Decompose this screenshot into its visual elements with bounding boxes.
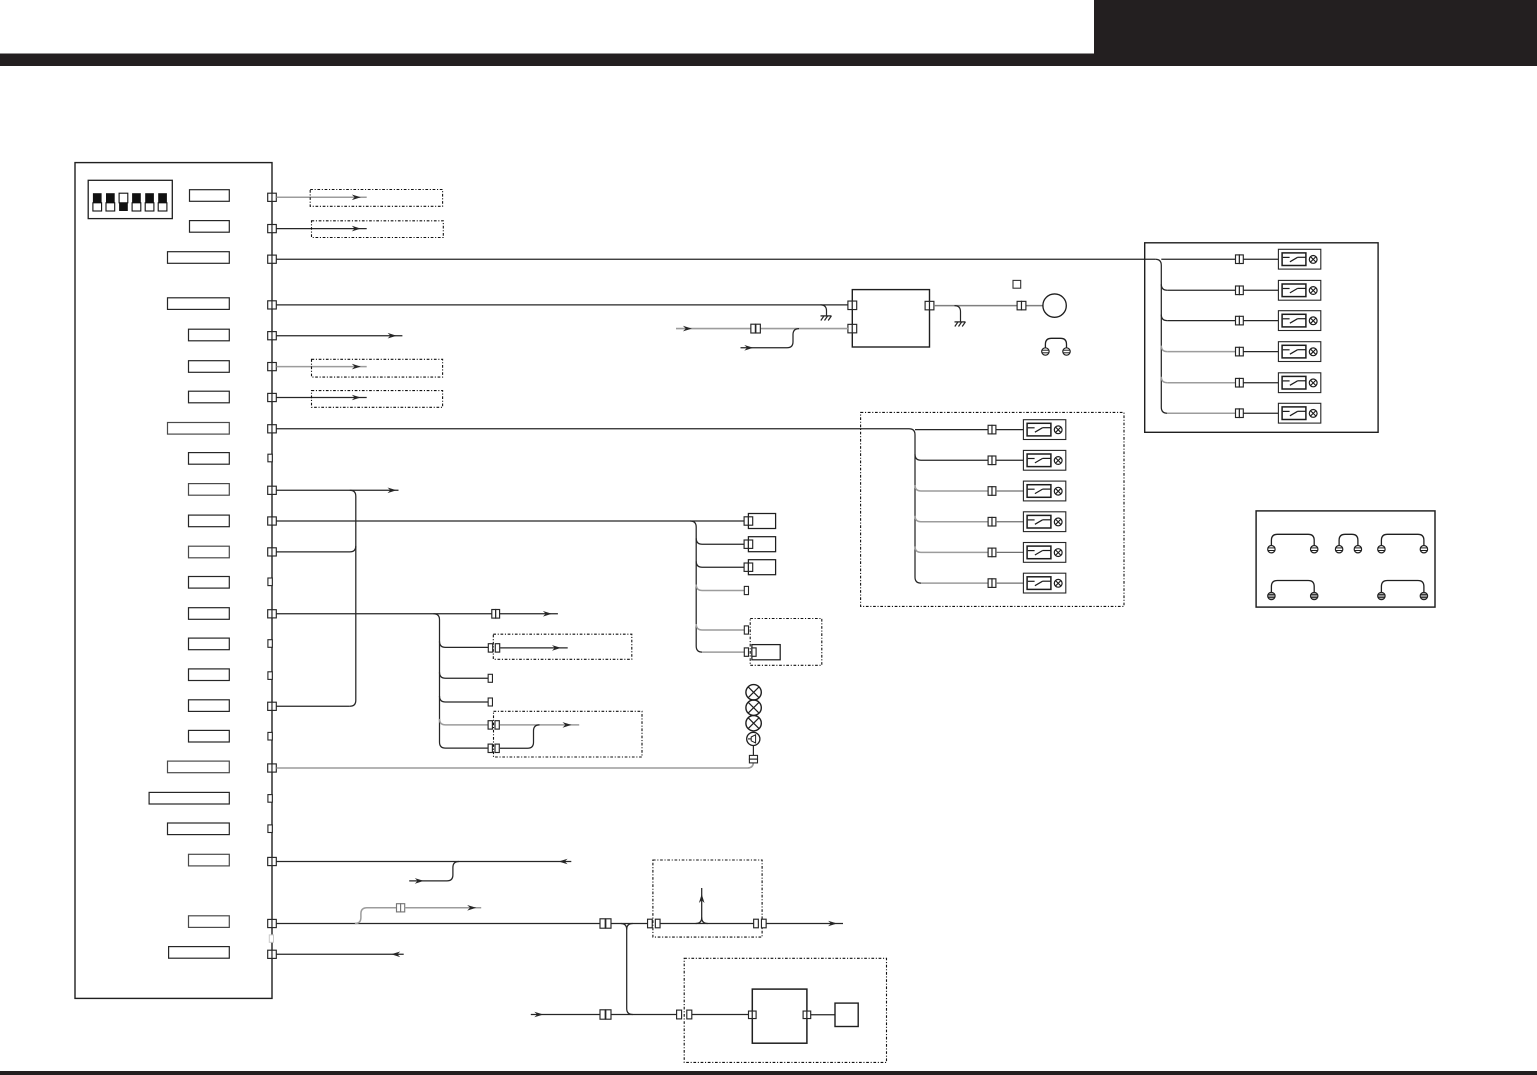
wire pin 14 out [500,611,558,617]
illumination bus [1155,259,1167,413]
pin 22 connector [268,857,277,865]
switch box left connector [648,919,661,928]
pin 19 connector [268,764,277,772]
wire branch e loop [446,725,540,748]
pin 19 label box [168,761,230,773]
control unit U1 box [75,163,272,999]
pin 18 label box [189,730,230,742]
branch bus of pin 14 [434,614,446,748]
pin 14 label box [189,608,230,620]
pin 16 stub [268,672,272,680]
pin 5 connector [268,332,277,340]
wire relay to motor [934,305,1043,307]
motor M1 [1043,294,1066,317]
fuse branch wire 4 [696,585,744,591]
illumination lamp unit 3 [1278,311,1320,331]
jumper link J0 [1042,338,1071,355]
fuse branch wire 6 [702,651,744,653]
pin 4 label box [168,298,230,310]
branch wire a [440,641,489,647]
interior lamp unit 4 [1023,512,1065,532]
fuse F3 connector [744,563,753,571]
stub terminal below fuses [744,586,748,594]
socket connector [744,648,756,656]
page header rule bar [0,54,1537,67]
module box left connector [677,1010,692,1019]
pin 15 label box [189,638,230,650]
jumper link J1 [1268,534,1318,553]
jumper link J5 [1378,581,1428,600]
pin 17 connector [268,702,277,710]
inline connector C2 [600,1010,611,1019]
pin 7 connector [268,393,277,401]
terminal junction box [1256,511,1435,607]
fuse F1 connector [744,517,753,525]
illumination lamp unit 5 [1278,373,1320,393]
DIP switch S1 [88,180,172,218]
interior lamp wire 3 [915,485,1023,495]
dashed box: control module [684,958,886,1062]
pin 12 label box [189,546,230,558]
ground G1 [821,305,832,321]
dashed box: interior lamp cluster [861,412,1124,606]
wire pin 7 [276,395,366,401]
branch e connector [488,744,499,752]
motor feed connector [1017,301,1026,310]
bus wire pins 10-12-17 [276,490,355,706]
branch wire b [440,672,489,678]
illumination lamp unit 4 [1278,342,1320,362]
fuse bus vertical [690,521,702,652]
fuse F2 connector [744,540,753,548]
dashed box: accessory socket [750,619,822,666]
fuse branch wire 5 [696,624,744,630]
ECU left connector [749,1011,757,1019]
spare terminal stub [269,935,273,942]
relay pin 1 connector [848,301,857,310]
pin 10 connector [268,486,277,494]
pin 6 label box [189,361,230,373]
interior lamp wire 2 [915,454,1023,464]
wire pin 17 [276,705,349,707]
relay box [852,290,929,347]
wire branch to relay pin 2 [741,329,800,351]
branch wire pin 23 up [355,908,396,924]
pin 8 connector [268,425,277,433]
jumper link J3 [1378,534,1428,553]
inline connector C3 [751,324,761,333]
pin 8 label box [168,423,230,435]
wire pin 23 out [766,921,843,927]
pin 20 label box [149,792,229,804]
branch 23 connector [397,904,405,912]
wire pin 24 [276,952,403,958]
dashed box: output 3 [312,359,443,377]
fuse F1 body [748,514,775,529]
pin 20 stub [268,795,272,803]
pin 7 label box [189,391,230,403]
illumination lamp wire 6 [1167,409,1278,418]
horn H1 [747,732,760,745]
pin 2 label box [190,221,230,233]
illumination lamp wire 1 [1161,255,1278,264]
jumper link J4 [1268,581,1318,600]
pin 11 label box [189,515,230,527]
pin 9 stub [268,454,272,462]
interior lamp unit 5 [1023,543,1065,563]
illumination lamp unit 1 [1278,249,1320,269]
wire pin 10 [276,488,398,494]
wire pin 6 [276,364,366,370]
switch box right connector [754,919,767,928]
ground G2 [955,306,966,327]
pin 4 connector [268,301,277,309]
relay pin 2 connector [848,324,857,333]
wire pin 19 to lamps [276,762,753,768]
fuse F2 body [748,537,775,552]
wire to ECU [692,1014,749,1016]
illumination lamp wire 2 [1161,284,1278,294]
pin 6 connector [268,363,277,371]
illumination lamp wire 4 [1161,346,1278,356]
bottom feed wire [531,1012,677,1018]
wire lamp stack [752,746,754,756]
interior lamp bus [909,429,921,583]
arrow up inside switch box [696,888,708,924]
pin 13 label box [189,577,230,589]
dashed box: switch unit [653,860,762,937]
wire pin 8 to interior lamp cluster [276,428,909,430]
illumination lamp wire 5 [1161,377,1278,387]
pin 12 connector [268,548,277,556]
dashed box: output 4 [312,391,443,408]
branch wire pin 22 [409,862,459,884]
dashed box: option connector 2 [494,711,643,757]
node square [1013,280,1021,288]
branch d connector [488,721,499,729]
dashed box: output 2 [312,221,444,238]
wire pin 23 [276,923,647,925]
wire pin 5 [276,333,402,339]
pin 10 label box [189,484,230,496]
pin 23 connector [268,919,277,927]
relay output connector [925,301,934,310]
sensor box [835,1003,858,1026]
wire feed to relay pin 2 [676,326,848,332]
interior lamp wire 6 [921,579,1023,588]
pin 14 connector [268,610,277,618]
dashed box: output 1 [310,190,442,207]
pin 13 stub [268,578,272,586]
wire pin 11 to fuse F1 [276,520,744,522]
pin 3 connector [268,255,277,263]
illumination cluster box [1145,243,1378,432]
pin 15 stub [268,640,272,648]
interior lamp wire 5 [915,546,1023,556]
pin 1 label box [190,190,230,202]
lamp L3 [746,716,761,731]
wire branch a out [500,645,568,651]
wire pin 14 [276,613,491,615]
interior lamp unit 6 [1023,573,1065,593]
illumination lamp unit 2 [1278,280,1320,300]
pin 18 stub [268,732,272,740]
interior lamp wire 4 [915,516,1023,526]
illumination lamp unit 6 [1278,403,1320,423]
lamp stack connector [749,755,757,763]
fuse F3 body [748,560,775,575]
wire branch 23 out [405,905,482,911]
pin 1 connector [268,193,277,201]
pin 5 label box [189,329,230,341]
branch c stub [488,698,492,706]
wire pin 4 to relay [276,304,848,306]
pin 9 label box [189,453,230,465]
wire inside switch box [660,923,753,925]
illumination lamp wire 3 [1161,315,1278,325]
pin 2 connector [268,225,277,233]
pin 22 label box [189,854,230,866]
pin 11 connector [268,517,277,525]
pin 21 stub [268,825,272,833]
interior lamp wire 1 [915,425,1023,434]
pin 17 label box [189,700,230,712]
jumper link J2 [1335,534,1361,553]
wire pin 1 [276,195,366,201]
ECU box [752,989,807,1043]
pin 3 label box [168,252,230,264]
pin 14 connector mid [492,610,500,619]
bottom rule line [0,1071,1537,1075]
branch wire d [440,719,488,725]
interior lamp unit 3 [1023,481,1065,501]
lamp L1 [746,685,761,700]
lamp L2 [746,700,761,715]
page header title block [1094,0,1537,66]
wire pin 22 [276,859,571,865]
fuse branch wire 2 [696,538,744,544]
branch a connector [488,644,499,652]
interior lamp unit 2 [1023,450,1065,470]
pin 16 label box [189,669,230,681]
ECU right connector [803,1011,811,1019]
interior lamp unit 1 [1023,420,1065,440]
dashed box: option connector 1 [493,634,632,659]
wire pin 2 [276,226,366,232]
branch b stub [488,674,492,682]
pin 23 label box [189,916,230,928]
socket body [752,645,780,660]
junction wire down [621,924,633,1015]
pin 24 label box [169,947,230,959]
inline connector C1 [600,919,611,928]
branch wire c [440,696,489,702]
pin 21 label box [168,823,230,835]
wire branch d out [500,722,579,728]
wire ECU to sensor [811,1014,835,1016]
pin 24 connector [268,950,277,958]
terminal at socket box edge [744,626,748,634]
fuse branch wire 3 [696,561,744,567]
wire pin 3 to illumination cluster [276,258,1155,260]
